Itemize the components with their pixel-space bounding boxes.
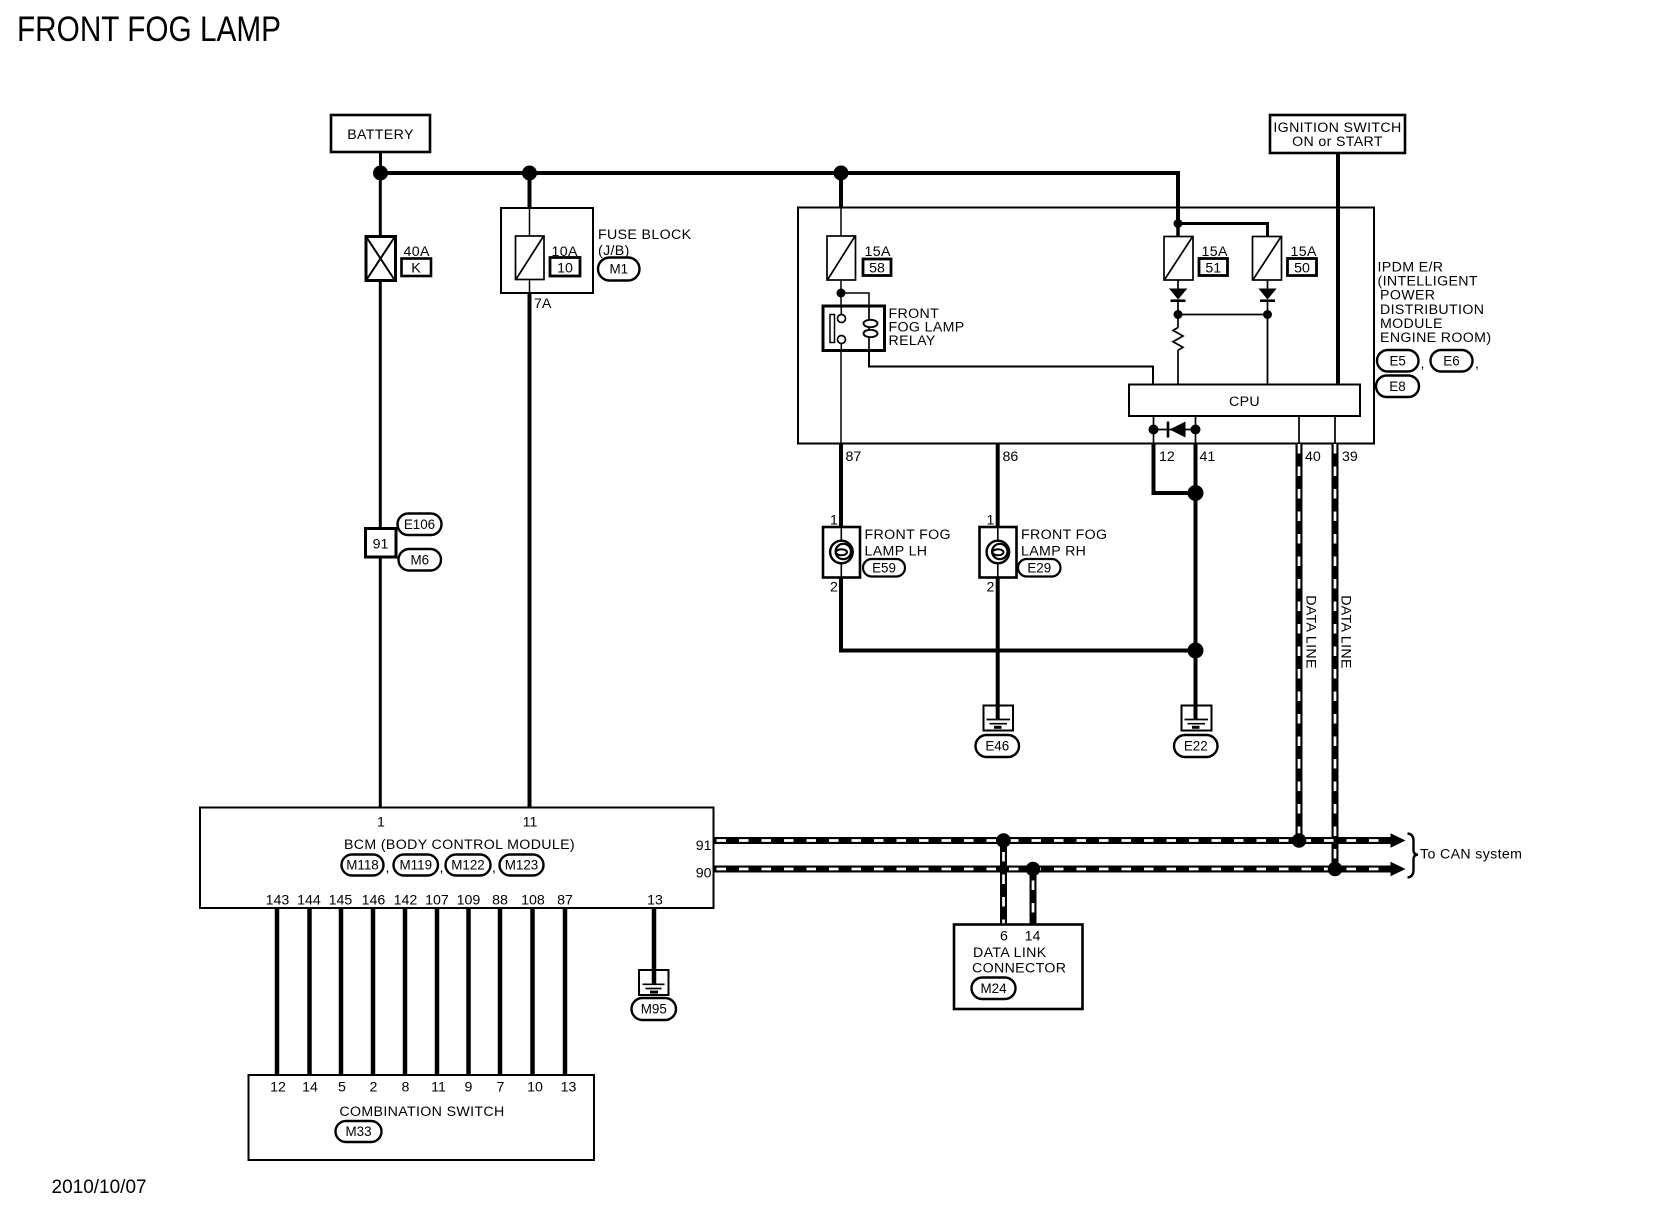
svg-text:To CAN system: To CAN system bbox=[1420, 847, 1522, 863]
svg-text:10: 10 bbox=[557, 261, 573, 277]
svg-text:K: K bbox=[411, 261, 421, 277]
svg-text:91: 91 bbox=[373, 537, 389, 553]
svg-text:BCM (BODY CONTROL MODULE): BCM (BODY CONTROL MODULE) bbox=[344, 837, 575, 853]
svg-text:39: 39 bbox=[1342, 449, 1358, 465]
wire relay coil feed bbox=[841, 293, 869, 307]
wire data line 39 bbox=[1332, 444, 1339, 870]
svg-text:58: 58 bbox=[869, 261, 885, 277]
wires BCM to combination switch bbox=[277, 908, 565, 1075]
ignition switch ON or START bbox=[1270, 115, 1405, 153]
svg-text:6: 6 bbox=[1000, 929, 1008, 945]
ground E22 bbox=[1174, 706, 1218, 758]
svg-text:LAMP LH: LAMP LH bbox=[865, 544, 928, 560]
svg-text:12: 12 bbox=[1159, 449, 1175, 465]
connector E6 bbox=[1431, 350, 1480, 372]
svg-text:142: 142 bbox=[394, 893, 418, 909]
node CAN 90 pin39 tap bbox=[1328, 862, 1343, 877]
svg-text:E106: E106 bbox=[404, 517, 435, 532]
svg-text:50: 50 bbox=[1294, 261, 1310, 277]
svg-text:M33: M33 bbox=[345, 1124, 371, 1139]
svg-text:,: , bbox=[386, 860, 390, 876]
wire battery branch lower bbox=[379, 557, 382, 808]
svg-text:CONNECTOR: CONNECTOR bbox=[972, 961, 1066, 977]
node tie right bbox=[1263, 310, 1272, 319]
svg-text:2: 2 bbox=[830, 580, 838, 596]
battery bbox=[331, 115, 430, 152]
svg-text:11: 11 bbox=[523, 815, 538, 831]
svg-text:144: 144 bbox=[297, 893, 321, 909]
wire BCM pin 13 to ground bbox=[652, 908, 657, 984]
wire relay contact to pin 87 bbox=[840, 351, 842, 444]
node fuse 51/50 feed junction bbox=[1174, 219, 1183, 228]
connector M118 bbox=[342, 855, 390, 877]
wire CAN line 91 bbox=[714, 833, 1406, 848]
node tie left bbox=[1174, 310, 1183, 319]
wire fuse 50 to CPU bbox=[1267, 315, 1269, 385]
wire CPU pin 41 bbox=[1195, 416, 1197, 444]
wire CAN line 90 bbox=[714, 862, 1406, 877]
svg-text:8: 8 bbox=[402, 1080, 410, 1096]
wire pin 41 to ground E22 bbox=[1194, 444, 1198, 720]
svg-text:87: 87 bbox=[846, 449, 862, 465]
svg-text:14: 14 bbox=[302, 1080, 318, 1096]
svg-text:146: 146 bbox=[362, 893, 386, 909]
wire fuse 58 to relay bbox=[840, 280, 842, 315]
svg-text:M118: M118 bbox=[346, 858, 379, 873]
wire ignition feed bbox=[1336, 153, 1340, 385]
svg-text:51: 51 bbox=[1205, 261, 1221, 277]
svg-text:M123: M123 bbox=[505, 858, 539, 873]
wire DLC drop 6 bbox=[1000, 841, 1007, 925]
ground M95 bbox=[632, 970, 677, 1020]
wire DLC drop 14 bbox=[1030, 869, 1037, 925]
diode D51 bbox=[1169, 280, 1187, 315]
CPU box bbox=[1129, 385, 1360, 417]
svg-text:86: 86 bbox=[1003, 449, 1019, 465]
svg-text:10: 10 bbox=[527, 1080, 543, 1096]
wire lamp LH ground run bbox=[841, 578, 1196, 651]
wire relay coil to CPU bbox=[869, 351, 1153, 385]
connector E5 bbox=[1377, 350, 1425, 372]
front fog lamp RH bbox=[980, 527, 1108, 578]
svg-text:87: 87 bbox=[557, 893, 573, 909]
node CAN 91 DLC tap bbox=[996, 833, 1011, 848]
connector E8 bbox=[1376, 376, 1419, 398]
svg-text:E5: E5 bbox=[1390, 354, 1406, 369]
diode D50 bbox=[1258, 280, 1276, 315]
fuse block J/B with fuse 10A 10 bbox=[501, 208, 692, 293]
wire fuse 58 feed bbox=[839, 173, 843, 208]
wire diode tie bbox=[1178, 314, 1268, 316]
svg-text:91: 91 bbox=[696, 838, 712, 854]
svg-text:DATA LINE: DATA LINE bbox=[1338, 595, 1354, 669]
svg-text:1: 1 bbox=[377, 815, 385, 831]
svg-text:M24: M24 bbox=[980, 981, 1007, 996]
combination switch box bbox=[249, 1075, 595, 1160]
svg-text:90: 90 bbox=[696, 866, 712, 882]
svg-text:E46: E46 bbox=[985, 739, 1009, 754]
svg-text:14: 14 bbox=[1025, 929, 1041, 945]
brace to CAN bbox=[1408, 834, 1419, 878]
svg-text:M95: M95 bbox=[641, 1002, 667, 1017]
wire data line 40 bbox=[1296, 444, 1303, 841]
svg-text:9: 9 bbox=[465, 1080, 473, 1096]
node IPDM feed junction bbox=[834, 166, 849, 181]
wire power bus bbox=[381, 173, 1179, 224]
pin labels 87 86 12 41 40 39 bbox=[846, 449, 1358, 465]
svg-text:FUSE BLOCK: FUSE BLOCK bbox=[598, 227, 692, 243]
svg-text:,: , bbox=[492, 860, 496, 876]
svg-text:11: 11 bbox=[431, 1080, 446, 1096]
svg-text:FRONT FOG: FRONT FOG bbox=[865, 527, 951, 543]
svg-text:107: 107 bbox=[425, 893, 449, 909]
svg-text:E29: E29 bbox=[1027, 561, 1051, 576]
wire battery stub bbox=[379, 152, 382, 173]
wire fuse block feed bbox=[528, 173, 532, 208]
resistor R1 bbox=[1173, 315, 1183, 385]
svg-text:E22: E22 bbox=[1184, 739, 1208, 754]
svg-text:,: , bbox=[1421, 356, 1425, 372]
svg-text:7: 7 bbox=[497, 1080, 505, 1096]
connector M119 bbox=[394, 855, 444, 877]
front fog lamp LH bbox=[823, 527, 951, 578]
node fuse block junction bbox=[522, 166, 537, 181]
node pins 12/41 tie bbox=[1188, 485, 1204, 501]
wire fuse 50 feed bbox=[1178, 224, 1268, 237]
svg-text:12: 12 bbox=[270, 1080, 286, 1096]
svg-text:88: 88 bbox=[492, 893, 508, 909]
svg-text:2: 2 bbox=[987, 580, 995, 596]
label IPDM E/R bbox=[1378, 260, 1492, 347]
node pin 41 bbox=[1191, 425, 1201, 435]
node relay feed junction bbox=[837, 289, 846, 298]
svg-text:E8: E8 bbox=[1389, 379, 1405, 394]
svg-text:7A: 7A bbox=[534, 296, 552, 312]
svg-text:LAMP RH: LAMP RH bbox=[1021, 544, 1086, 560]
svg-text:DATA LINK: DATA LINK bbox=[973, 945, 1047, 961]
BCM box bbox=[200, 808, 714, 909]
wire CPU pin 39 bbox=[1334, 416, 1336, 444]
svg-text:FRONT FOG: FRONT FOG bbox=[1021, 527, 1107, 543]
svg-text:2010/10/07: 2010/10/07 bbox=[52, 1177, 147, 1198]
wire CPU pin 12 bbox=[1153, 416, 1155, 444]
svg-text:109: 109 bbox=[457, 893, 481, 909]
node CAN 90 DLC tap bbox=[1026, 862, 1041, 877]
connector M122 bbox=[446, 855, 497, 877]
svg-text:145: 145 bbox=[329, 893, 353, 909]
svg-text:FRONT FOG LAMP: FRONT FOG LAMP bbox=[17, 10, 281, 49]
svg-text:M122: M122 bbox=[451, 858, 485, 873]
diode D12 bbox=[1154, 422, 1196, 438]
wire pin 86 to lamp RH bbox=[996, 444, 1000, 528]
svg-text:13: 13 bbox=[561, 1080, 577, 1096]
svg-text:13: 13 bbox=[647, 893, 663, 909]
svg-text:DATA LINE: DATA LINE bbox=[1303, 595, 1319, 669]
wire battery branch upper bbox=[379, 173, 382, 529]
svg-text:E59: E59 bbox=[872, 561, 896, 576]
connector M123 bbox=[500, 855, 544, 876]
wire fuse 51 feed bbox=[1176, 224, 1180, 237]
svg-text:BATTERY: BATTERY bbox=[347, 127, 414, 143]
ground E46 bbox=[976, 706, 1020, 758]
node battery junction bbox=[373, 166, 388, 181]
BCM bottom pin labels bbox=[266, 893, 663, 909]
svg-text:143: 143 bbox=[266, 893, 290, 909]
svg-text:CPU: CPU bbox=[1229, 394, 1260, 410]
svg-text:ENGINE ROOM): ENGINE ROOM) bbox=[1380, 330, 1491, 346]
svg-text:2: 2 bbox=[370, 1080, 378, 1096]
svg-text:M119: M119 bbox=[400, 858, 433, 873]
svg-text:108: 108 bbox=[521, 893, 545, 909]
svg-text:,: , bbox=[1475, 356, 1479, 372]
svg-text:ON or START: ON or START bbox=[1292, 134, 1383, 150]
node CAN 91 pin40 tap bbox=[1292, 833, 1307, 848]
svg-text:40: 40 bbox=[1305, 449, 1321, 465]
wire lamp RH to ground E46 bbox=[996, 578, 1000, 720]
svg-text:M6: M6 bbox=[410, 553, 429, 568]
svg-text:,: , bbox=[440, 860, 444, 876]
relay FRONT FOG LAMP RELAY bbox=[823, 306, 965, 351]
svg-text:41: 41 bbox=[1200, 449, 1216, 465]
IPDM E/R box bbox=[798, 208, 1374, 444]
node lamp ground tie bbox=[1188, 643, 1204, 659]
fusible link 40A K bbox=[366, 237, 431, 281]
svg-text:RELAY: RELAY bbox=[889, 333, 936, 349]
wire pin 87 to lamp LH bbox=[839, 444, 843, 528]
fuse 58 15A bbox=[827, 236, 891, 280]
wire pin 12 jog bbox=[1154, 444, 1196, 494]
wire CPU pin 40 bbox=[1298, 416, 1300, 444]
connector 91 E106 M6 bbox=[366, 514, 442, 571]
svg-text:COMBINATION SWITCH: COMBINATION SWITCH bbox=[339, 1104, 504, 1120]
fuse 50 15A bbox=[1253, 237, 1317, 281]
svg-text:M1: M1 bbox=[609, 262, 628, 277]
wire fuse block output 7A bbox=[528, 293, 532, 808]
node pin 12 bbox=[1149, 425, 1159, 435]
svg-text:E6: E6 bbox=[1443, 354, 1459, 369]
svg-text:5: 5 bbox=[338, 1080, 346, 1096]
data link connector M24 bbox=[954, 925, 1083, 1010]
fuse 51 15A bbox=[1164, 237, 1228, 281]
